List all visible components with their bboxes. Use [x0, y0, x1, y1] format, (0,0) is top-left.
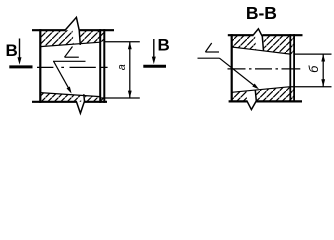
left view: bottom face line (right part) [84, 101, 107, 103]
left view: tapered bore lower (sloped) line [40, 93, 100, 97]
svg-text:В: В [158, 36, 170, 55]
svg-text:В-В: В-В [246, 3, 277, 23]
section B-B: top face line (right part) [262, 34, 302, 36]
dimension a: lower arrowhead [128, 91, 132, 98]
section mark B left: thick stroke [9, 65, 32, 68]
left view: slope symbol slant [65, 47, 73, 58]
dimension a: dimension line [129, 42, 131, 98]
section B-B: top break (zigzag) line [253, 29, 264, 51]
section B-B: axis centerline (dash-dot) [228, 68, 301, 70]
section B-B: bottom wall hatched section [232, 87, 291, 102]
section B-B: tapered bore upper (sloped) line [232, 47, 291, 54]
section mark B right: thick stroke [143, 65, 166, 68]
section B-B: leader shelf [198, 57, 220, 59]
left view: hatched strip between right-end edges (top) [100, 30, 104, 42]
left view: axis centerline (dash-dot) [26, 66, 108, 68]
section B-B: white gap at bottom break line [247, 90, 256, 103]
section mark B right: arrowhead [152, 57, 156, 65]
left view: white gap at top break line [73, 30, 81, 48]
dimension b: bottom extension line [291, 86, 332, 88]
section B-B: leader line [220, 58, 255, 86]
section B-B: leader arrowhead [252, 84, 259, 90]
svg-text:б: б [307, 65, 321, 73]
left view: hatched strip between right-end edges (bottom) [100, 98, 104, 102]
left view: bottom face line (left part) [32, 101, 77, 103]
left view: leader line [54, 61, 71, 91]
dimension a: top extension line [105, 41, 140, 43]
section B-B: bottom face line (right part) [256, 100, 302, 102]
left view: top face line (left part) [32, 29, 65, 31]
section B-B: right bore-end edge [289, 34, 291, 102]
section B-B: top wall hatched section [232, 35, 291, 54]
dimension b: dimension line [322, 54, 324, 87]
section B-B: bottom break (zigzag) line [247, 90, 256, 109]
section B-B: slope symbol base [205, 51, 219, 53]
dimension a: label a (rotated) [116, 64, 128, 70]
dimension b: top extension line [295, 53, 332, 55]
section B-B: white gap at top break line [255, 35, 265, 53]
dimension b: upper arrowhead [321, 54, 325, 61]
dimension a: upper arrowhead [128, 42, 132, 49]
section mark B left: arrow line [19, 39, 21, 60]
section B-B: hatched strip between right-end edges (bottom) [290, 87, 294, 102]
section B-B: slope symbol slant [205, 43, 211, 52]
left view: tapered bore upper line [40, 42, 100, 46]
left view: white gap at bottom break line [81, 92, 86, 103]
section B-B: right end face edge [293, 34, 295, 102]
section B-B: bottom face line (left part) [229, 100, 248, 102]
left view: slope symbol base [65, 56, 79, 58]
left view: bottom break (zigzag) line [77, 94, 85, 113]
left view: leader arrowhead [67, 87, 72, 94]
left view: top wall hatched section [40, 30, 100, 46]
svg-text:а: а [116, 64, 128, 70]
dimension b: label b (rotated) [307, 65, 321, 73]
left view: left end face edge [39, 29, 41, 103]
section mark B left: arrowhead [18, 57, 22, 65]
left view: right bore-end edge [99, 29, 101, 103]
section B-B: top face line (left part) [228, 34, 254, 36]
left view: leader shelf [53, 60, 86, 62]
section mark B right: arrow line [153, 39, 155, 59]
svg-text:В: В [6, 41, 18, 60]
left view: top face line (right part) [79, 29, 114, 31]
section B-B: hatched strip between right-end edges (top) [290, 35, 294, 54]
dimension a: bottom extension line [100, 97, 140, 99]
left view: right end face edge [103, 29, 105, 103]
section B-B: left end face edge [231, 34, 233, 102]
left view: top break (zigzag) line [65, 17, 81, 45]
dimension b: lower arrowhead [321, 79, 325, 86]
left view: bottom wall hatched section [40, 93, 100, 102]
section B-B: tapered bore lower (sloped) line [232, 87, 291, 93]
